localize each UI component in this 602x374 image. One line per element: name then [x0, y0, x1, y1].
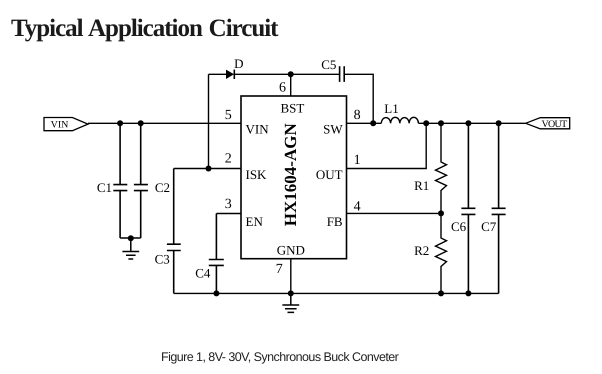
- svg-text:HX1604-AGN: HX1604-AGN: [281, 123, 300, 227]
- wire SW pin8 to inductor: [347, 122, 382, 124]
- node C6 top: [465, 120, 471, 126]
- node FB divider junction: [438, 210, 444, 216]
- svg-text:VIN: VIN: [51, 120, 69, 131]
- capacitor C5 plates: [340, 66, 345, 82]
- node C4 bottom: [213, 290, 219, 296]
- svg-text:4: 4: [354, 199, 361, 214]
- capacitor C3: [167, 169, 181, 294]
- ground symbol left: [122, 238, 139, 259]
- node C1C2 ground: [128, 235, 134, 241]
- wire diode cathode to BST node to C5: [234, 73, 339, 75]
- ground symbol center: [282, 293, 299, 312]
- node R2 bottom: [438, 290, 444, 296]
- wire bottom ground rail: [174, 292, 499, 294]
- svg-text:C2: C2: [155, 180, 170, 195]
- wire GND pin7 vertical: [290, 259, 292, 294]
- resistor R1: [436, 123, 447, 213]
- node diode-ISK junction: [206, 166, 212, 172]
- wire C1 C2 bottom bar: [120, 237, 141, 239]
- svg-text:6: 6: [279, 80, 286, 95]
- svg-text:7: 7: [276, 262, 283, 277]
- svg-text:C4: C4: [195, 266, 211, 281]
- svg-text:ISK: ISK: [246, 167, 268, 182]
- capacitor C4: [209, 214, 224, 294]
- node C5-SW junction: [370, 120, 376, 126]
- svg-text:L1: L1: [384, 101, 398, 116]
- svg-text:C5: C5: [321, 57, 336, 72]
- wire diode anode leg vertical: [208, 74, 210, 168]
- capacitor C7: [492, 123, 506, 293]
- node C7 top: [496, 120, 502, 126]
- svg-text:3: 3: [225, 197, 232, 212]
- wire FB pin4: [347, 212, 442, 214]
- svg-text:1: 1: [354, 153, 361, 168]
- inductor L1: [381, 117, 418, 123]
- node C1 top: [117, 120, 123, 126]
- svg-text:C7: C7: [481, 219, 497, 234]
- VOUT connector: [526, 118, 570, 130]
- svg-text:GND: GND: [277, 242, 305, 257]
- IC U1 HX1604-AGN body: [241, 96, 347, 259]
- resistor R2: [436, 213, 447, 293]
- node C2 top: [138, 120, 144, 126]
- capacitor C6: [461, 123, 475, 293]
- svg-text:VIN: VIN: [246, 122, 270, 137]
- wire output rail to VOUT: [418, 122, 526, 124]
- svg-text:SW: SW: [323, 122, 343, 137]
- svg-text:EN: EN: [246, 214, 264, 229]
- svg-text:5: 5: [225, 108, 232, 123]
- wire ISK pin2: [174, 168, 241, 170]
- svg-text:R1: R1: [414, 178, 429, 193]
- node C6 bottom: [465, 290, 471, 296]
- capacitor C2: [134, 123, 148, 238]
- caption: [161, 350, 398, 364]
- node GND pin7 bottom: [288, 290, 294, 296]
- svg-text:D: D: [234, 56, 243, 71]
- svg-text:8: 8: [354, 108, 361, 123]
- svg-text:C1: C1: [97, 180, 112, 195]
- wire VIN input rail: [88, 122, 241, 124]
- node OUT-rail junction: [423, 120, 429, 126]
- svg-text:BST: BST: [280, 101, 304, 116]
- svg-text:C3: C3: [155, 252, 170, 267]
- svg-text:R2: R2: [414, 243, 429, 258]
- wire diode top rail left segment: [209, 73, 227, 75]
- capacitor C1: [113, 123, 127, 238]
- svg-text:C6: C6: [451, 219, 467, 234]
- title: [11, 15, 277, 43]
- wire C5 right to corner down to SW: [344, 74, 373, 123]
- svg-text:VOUT: VOUT: [542, 119, 568, 130]
- node BST top: [288, 71, 294, 77]
- node R1 top: [438, 120, 444, 126]
- diode D symbol: [226, 70, 234, 79]
- wire BST pin6 vertical: [290, 74, 292, 96]
- wire OUT pin1 up to output rail: [347, 123, 427, 168]
- svg-text:OUT: OUT: [316, 167, 343, 182]
- svg-text:FB: FB: [327, 214, 343, 229]
- VIN connector: [44, 118, 88, 131]
- svg-text:2: 2: [225, 152, 232, 167]
- wire EN pin3: [216, 213, 241, 215]
